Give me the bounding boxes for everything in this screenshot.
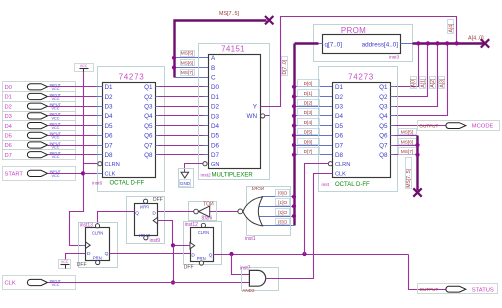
wire inst9 clock from clock net	[158, 221, 173, 246]
svg-text:D1: D1	[335, 84, 344, 91]
svg-text:Q6: Q6	[379, 133, 388, 140]
svg-text:74273: 74273	[348, 73, 374, 82]
svg-text:Q: Q	[135, 210, 139, 216]
tap D[5] to 74273 inst D6	[295, 135, 333, 137]
tap A[0] from Q1	[395, 44, 419, 87]
svg-text:CLK: CLK	[335, 172, 346, 178]
tap D[2] to 74273 inst D3	[295, 106, 333, 108]
input pin START	[3, 167, 76, 181]
output pin STATUS	[418, 284, 498, 294]
gate NOR4 (inst1, mirrored)	[238, 186, 291, 242]
svg-text:address[4..0]: address[4..0]	[362, 42, 399, 49]
svg-text:DFF: DFF	[184, 264, 194, 270]
svg-text:MS[7]: MS[7]	[401, 149, 414, 155]
register U4 74273 octal D-FF (inst)	[319, 67, 398, 192]
svg-text:NOT: NOT	[203, 202, 214, 208]
output pin MCODE	[418, 121, 500, 131]
tap D[1] to 74273 inst D2	[295, 96, 333, 98]
tap MS[5] to 74151 A	[175, 57, 209, 59]
wire D7 input to 74273 D8	[48, 154, 98, 156]
svg-text:D4: D4	[211, 123, 220, 130]
tap D[1] to NOR4 input	[259, 206, 295, 208]
svg-text:D[4]: D[4]	[304, 120, 313, 126]
wire Q8 to 74151 D7	[159, 154, 206, 156]
svg-text:GN: GN	[211, 162, 219, 168]
svg-text:PRN: PRN	[197, 256, 206, 261]
gate NOT (inst8, mirrored)	[189, 202, 217, 222]
wire branch up to 74273 inst CLRN	[305, 164, 329, 255]
input pin D0	[3, 82, 76, 92]
svg-text:D3: D3	[105, 104, 114, 111]
gate AND2 (inst7)	[240, 266, 279, 293]
bus D[7..0] into PROM q	[295, 42, 319, 44]
svg-text:q[7..0]: q[7..0]	[325, 42, 343, 49]
wire VCC branch to CLRN of 74273 inst6	[84, 163, 98, 165]
svg-text:VCC: VCC	[52, 116, 60, 120]
svg-text:NOR4: NOR4	[251, 186, 264, 191]
svg-text:A[4..0]: A[4..0]	[468, 36, 484, 42]
node clock junction upper	[171, 243, 175, 247]
svg-text:D2: D2	[211, 104, 220, 111]
svg-text:inst6: inst6	[92, 180, 102, 186]
svg-text:MS[6]: MS[6]	[401, 139, 414, 145]
wire NOT output to inst9 D	[158, 211, 194, 213]
svg-text:D3: D3	[211, 113, 220, 120]
svg-text:VCC: VCC	[61, 260, 69, 264]
svg-text:D[0]: D[0]	[304, 81, 313, 87]
svg-text:AND2: AND2	[242, 288, 255, 293]
svg-text:VCC: VCC	[52, 283, 60, 287]
svg-text:B: B	[211, 65, 215, 72]
svg-text:D5: D5	[105, 123, 114, 130]
bus terminator X MS[7..5]	[265, 16, 273, 24]
svg-text:PRN: PRN	[140, 204, 149, 209]
svg-text:D4: D4	[335, 113, 344, 120]
wire D0 input to 74273 D1	[48, 86, 98, 88]
svg-text:D[1]: D[1]	[304, 91, 313, 97]
svg-text:inst: inst	[322, 182, 330, 188]
svg-text:MS[5]: MS[5]	[181, 51, 194, 57]
node A4 tap	[416, 41, 420, 45]
svg-text:D: D	[87, 251, 91, 257]
svg-text:VCC: VCC	[52, 107, 60, 111]
node branch to AND2	[229, 252, 233, 256]
wire branch to AND2 top input	[232, 255, 250, 275]
svg-text:D5: D5	[5, 134, 12, 140]
svg-text:D3: D3	[5, 114, 12, 120]
svg-text:D[5]: D[5]	[304, 130, 313, 136]
svg-text:CLK: CLK	[105, 172, 116, 178]
wire Q6 to 74151 D5	[159, 135, 206, 137]
svg-text:D[3]: D[3]	[304, 110, 313, 116]
wire Q2 to 74151 D1	[159, 96, 206, 98]
flip-flop DFF inst13 (flipped)	[77, 223, 118, 269]
wire Q7 to 74151 D6	[159, 145, 206, 147]
wire junction to CLK pin of 74273 inst6	[84, 173, 98, 175]
svg-text:D[7..0]: D[7..0]	[282, 59, 288, 74]
svg-text:D5: D5	[211, 133, 220, 140]
wire START to CLK junction	[48, 173, 84, 175]
svg-text:D2: D2	[105, 94, 114, 101]
svg-text:OCTAL D-FF: OCTAL D-FF	[110, 180, 145, 186]
svg-text:D[1]: D[1]	[278, 200, 287, 206]
svg-text:A[2]: A[2]	[430, 78, 436, 88]
register U1 74273 octal D-FF (inst6)	[92, 67, 165, 192]
wire D2 input to 74273 D3	[48, 106, 98, 108]
svg-text:C: C	[211, 75, 216, 82]
svg-text:D3: D3	[335, 104, 344, 111]
svg-text:CLK: CLK	[5, 281, 16, 287]
svg-text:GND: GND	[180, 181, 191, 186]
svg-text:MULTIPLEXER: MULTIPLEXER	[212, 173, 254, 179]
svg-text:CLRN: CLRN	[92, 230, 103, 235]
svg-text:MS[6]: MS[6]	[181, 60, 194, 66]
svg-text:VCC: VCC	[52, 174, 60, 178]
svg-text:VCC: VCC	[52, 97, 60, 101]
svg-text:inst9: inst9	[150, 238, 161, 244]
svg-text:Q2: Q2	[379, 94, 388, 101]
svg-text:VCC: VCC	[52, 136, 60, 140]
svg-text:D6: D6	[5, 143, 12, 149]
svg-text:D[6]: D[6]	[304, 139, 313, 145]
svg-text:Q4: Q4	[379, 113, 388, 120]
svg-text:inst3: inst3	[389, 55, 399, 61]
svg-text:PROM: PROM	[341, 26, 366, 35]
wire Q8 MS[7]	[395, 154, 418, 156]
wire D1 input to 74273 D2	[48, 96, 98, 98]
svg-text:Q1: Q1	[144, 84, 153, 91]
input pin D4	[3, 121, 76, 131]
svg-text:D[3]: D[3]	[278, 220, 287, 226]
svg-text:A[0]: A[0]	[411, 78, 417, 88]
tap A[2] from Q3	[395, 44, 438, 107]
svg-text:OUTPUT: OUTPUT	[419, 287, 438, 292]
tap MS[6] to 74151 B	[175, 67, 209, 69]
memory U3 PROM (inst3)	[314, 25, 413, 62]
svg-text:VCC: VCC	[52, 155, 60, 159]
wire VCC down / START branch down to inst13 clock	[70, 72, 84, 246]
svg-text:Q7: Q7	[379, 142, 388, 149]
wire D6 input to 74273 D7	[48, 145, 98, 147]
svg-text:Q2: Q2	[144, 94, 153, 101]
input pin D5	[3, 131, 76, 141]
label A[4]	[448, 20, 454, 34]
tap D[0] to 74273 inst D1	[295, 86, 333, 88]
svg-text:Q: Q	[209, 252, 213, 258]
svg-text:74273: 74273	[119, 73, 145, 82]
bus D[7..0] vertical	[293, 44, 295, 226]
svg-text:Q5: Q5	[144, 123, 153, 130]
wire inst13 Q to inst12 D	[110, 253, 191, 255]
svg-text:D7: D7	[5, 153, 12, 159]
svg-text:inst1: inst1	[245, 236, 256, 242]
svg-text:D[7]: D[7]	[304, 149, 313, 155]
svg-text:inst2: inst2	[201, 172, 211, 178]
svg-text:Q: Q	[105, 251, 109, 257]
svg-text:D: D	[191, 252, 195, 258]
svg-text:START: START	[5, 172, 24, 178]
svg-text:Q8: Q8	[144, 152, 153, 159]
input pin D2	[3, 102, 76, 112]
wire Q3 to 74151 D2	[159, 106, 206, 108]
svg-text:CLRN: CLRN	[105, 162, 120, 168]
svg-text:OCTAL D-FF: OCTAL D-FF	[335, 182, 370, 188]
svg-text:CLRN: CLRN	[198, 230, 209, 235]
node NOR tap	[292, 214, 296, 218]
tap D[3] to 74273 inst D4	[295, 115, 333, 117]
wire Q5 to 74151 D4	[159, 125, 206, 127]
stub PROM address	[401, 43, 414, 45]
input pin D3	[3, 112, 76, 121]
svg-text:D0: D0	[211, 84, 220, 91]
svg-text:D1: D1	[105, 84, 114, 91]
svg-text:D[0]: D[0]	[278, 191, 287, 197]
bus MS[7..5] top	[175, 21, 267, 78]
node MS7 right tap	[415, 153, 419, 157]
power symbol VCC at inst13 D	[59, 260, 71, 269]
svg-text:D7: D7	[335, 142, 344, 149]
bus MS[7..5] right vertical	[416, 136, 418, 191]
svg-text:D8: D8	[105, 152, 114, 159]
svg-text:MCODE: MCODE	[472, 124, 494, 130]
svg-text:OUTPUT: OUTPUT	[419, 123, 438, 128]
wire VCC to inst13 D	[66, 254, 86, 260]
input pin D1	[3, 92, 76, 102]
svg-text:STATUS: STATUS	[472, 287, 494, 293]
node NOR tap	[292, 195, 296, 199]
bus terminator X A[4..0]	[481, 39, 489, 47]
svg-text:D7: D7	[105, 142, 114, 149]
tap A[3] from Q4	[395, 44, 448, 116]
svg-text:D1: D1	[5, 95, 12, 101]
wire NOR4 output to NOT input	[210, 211, 238, 213]
flip-flop DFF inst9 (mirrored)	[127, 197, 165, 244]
wire Q1 to 74151 D0	[159, 86, 206, 88]
flip-flop DFF inst12 (flipped)	[184, 222, 222, 271]
svg-text:D7: D7	[211, 152, 220, 159]
svg-text:MS[7]: MS[7]	[181, 70, 194, 76]
wire Q7 MS[6]	[395, 145, 418, 147]
tap D[4] to 74273 inst D5	[295, 125, 333, 127]
wire D5 input to 74273 D6	[48, 135, 98, 137]
wire Q4 to 74151 D3	[159, 115, 206, 117]
node branch to CLRN	[302, 252, 306, 256]
node MS5 tap	[172, 56, 176, 60]
svg-text:D: D	[152, 210, 156, 216]
svg-text:D0: D0	[5, 85, 12, 91]
bus A[4..0]	[413, 42, 484, 44]
svg-text:Q5: Q5	[379, 123, 388, 130]
svg-text:D8: D8	[335, 152, 344, 159]
svg-text:VCC: VCC	[52, 126, 60, 130]
ground GND	[179, 169, 194, 188]
tap D[3] to NOR4 input	[262, 225, 295, 227]
svg-text:Q6: Q6	[144, 133, 153, 140]
wire clock net vertical	[173, 246, 175, 283]
svg-text:CLRN: CLRN	[335, 162, 350, 168]
svg-text:D5: D5	[335, 123, 344, 130]
node clock junction on CLK line	[171, 280, 175, 284]
svg-text:Q7: Q7	[144, 142, 153, 149]
svg-text:D[2]: D[2]	[278, 210, 287, 216]
svg-text:Q8: Q8	[379, 152, 388, 159]
svg-text:D4: D4	[5, 124, 13, 130]
svg-text:74151: 74151	[221, 45, 245, 54]
svg-text:WN: WN	[247, 113, 258, 120]
tap D[6] to 74273 inst D7	[295, 145, 333, 147]
power symbol VCC	[75, 64, 94, 72]
svg-text:Q3: Q3	[144, 104, 153, 111]
svg-text:D[2]: D[2]	[304, 101, 313, 107]
tap D[7] to 74273 inst D8	[295, 154, 333, 156]
input pin D7	[3, 150, 76, 160]
wire inst9 Q to inst13 CLRN	[98, 212, 135, 224]
svg-text:A[1]: A[1]	[420, 78, 426, 88]
svg-text:D2: D2	[335, 94, 344, 101]
svg-text:MS[5]: MS[5]	[401, 130, 414, 136]
wire clock net to inst12 clock	[174, 245, 191, 247]
svg-text:D6: D6	[105, 133, 114, 140]
svg-text:VCC: VCC	[52, 87, 60, 91]
svg-text:MS[7..5]: MS[7..5]	[406, 168, 412, 187]
tap MS[7] to 74151 C	[175, 77, 209, 79]
svg-text:PRN: PRN	[93, 255, 102, 260]
svg-text:inst8: inst8	[201, 216, 212, 222]
svg-text:D4: D4	[105, 113, 114, 120]
tap A[1] from Q2	[395, 44, 428, 97]
bus terminator X MS[7..5] right	[413, 188, 421, 196]
node START/CLK junction	[81, 171, 85, 175]
multiplexer U2 74151 (inst2)	[199, 44, 270, 180]
input pin D6	[3, 141, 76, 150]
node NOR tap	[292, 204, 296, 208]
svg-text:D1: D1	[211, 94, 220, 101]
svg-text:DFF: DFF	[77, 262, 87, 268]
wire Q6 MS[5]	[395, 135, 418, 137]
input pin CLK	[3, 276, 76, 290]
wire D3 input to 74273 D4	[48, 115, 98, 117]
svg-text:A[3]: A[3]	[440, 78, 446, 88]
node MS6 right tap	[415, 143, 419, 147]
tap D[2] to NOR4 input	[259, 216, 295, 218]
svg-text:D2: D2	[5, 104, 12, 110]
tap D[0] to NOR4 input	[262, 196, 295, 198]
svg-text:Q3: Q3	[379, 104, 388, 111]
wire 74151 Y to A[4] tap	[261, 17, 457, 107]
wire AND2 output to 74273 inst CLK	[266, 174, 333, 279]
svg-text:D6: D6	[335, 133, 344, 140]
node MS6 tap	[172, 65, 176, 69]
wire Q5 to MCODE output	[395, 125, 449, 127]
wire inst12 Q net	[214, 254, 409, 256]
svg-text:Q1: Q1	[379, 84, 388, 91]
wire to STATUS output	[409, 255, 449, 290]
wire CLK to AND2 input	[48, 282, 250, 284]
svg-text:MS[7..5]: MS[7..5]	[219, 11, 240, 17]
svg-text:A[4]: A[4]	[448, 23, 454, 33]
svg-text:DFF: DFF	[153, 197, 163, 203]
svg-text:VCC: VCC	[80, 64, 88, 68]
wire 74151 GN to GND	[185, 164, 203, 173]
wire D4 input to 74273 D5	[48, 125, 98, 127]
svg-text:D6: D6	[211, 142, 220, 149]
svg-text:Q4: Q4	[144, 113, 153, 120]
